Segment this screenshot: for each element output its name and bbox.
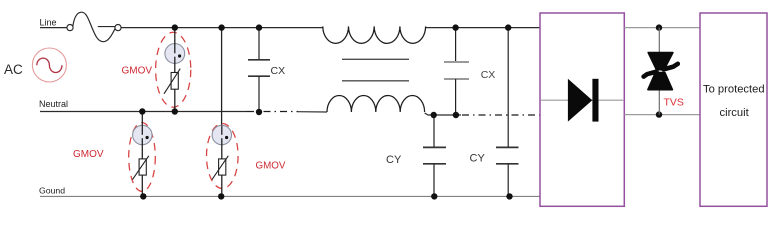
GMOV3 middle lead <box>221 138 223 159</box>
wire: Neutral solid to choke <box>297 111 327 113</box>
choke L1 bottom winding <box>327 96 425 113</box>
svg-text:CY: CY <box>386 154 402 166</box>
choke L1 core line 1 <box>342 58 409 60</box>
wire: Neutral left section <box>40 111 247 113</box>
svg-text:Line: Line <box>40 17 57 27</box>
GMOV1 middle lead <box>174 57 176 73</box>
capacitor CY1 lower lead <box>433 164 435 197</box>
wire: negative rail rectifier to load <box>624 114 700 116</box>
capacitor CX1 lower lead <box>258 76 260 111</box>
capacitor CY1 top plate <box>423 146 446 148</box>
wire: Neutral dash-dot section 1 <box>247 111 298 113</box>
capacitor CY2 lower lead <box>507 164 509 197</box>
GMOV2 upper lead <box>141 112 143 135</box>
junction dot Line-CX2 <box>452 24 458 30</box>
GMOV1 GDT dot electrode <box>178 54 181 57</box>
GMOV1 MOV body rect <box>171 73 178 90</box>
GMOV1 lower lead <box>174 89 176 111</box>
GMOV2 lower lead <box>141 175 143 196</box>
load box <box>700 13 767 206</box>
svg-text:GMOV: GMOV <box>256 160 286 171</box>
junction dot Line-GMOV3 <box>218 24 224 30</box>
AC source V1 circle <box>32 48 66 82</box>
choke L1 core line 2 <box>342 80 409 82</box>
svg-text:Gound: Gound <box>39 185 65 195</box>
GMOV2 GDT dot electrode <box>146 136 149 139</box>
AC source V1 sine <box>37 58 62 72</box>
GMOV3 GDT tube circle <box>212 125 231 144</box>
junction dot Ground-CY2 <box>506 193 512 199</box>
fuse F1 right terminal circle <box>115 25 121 31</box>
GMOV1 MOV diagonal <box>164 69 180 94</box>
junction dot Neutral-CX2 <box>453 112 459 118</box>
GMOV3 rail Line to ground <box>221 28 223 126</box>
capacitor CX1 top plate <box>248 59 270 61</box>
TVS D2 upper triangle <box>648 53 673 70</box>
capacitor CX2 upper lead <box>455 28 457 62</box>
svg-text:TVS: TVS <box>664 96 684 108</box>
GMOV3 MOV body rect <box>219 159 226 175</box>
capacitor CY1 upper lead <box>433 115 435 147</box>
svg-text:CX: CX <box>481 69 496 81</box>
GMOV3 upper lead inside circle <box>221 126 223 135</box>
GMOV3 MOV diagonal <box>212 156 228 180</box>
GMOV1 upper lead <box>174 28 176 54</box>
junction dot Neutral-CY1 <box>431 112 437 118</box>
wire: Line choke to rectifier <box>426 27 540 29</box>
junction dot Ground-GMOV3 <box>218 193 224 199</box>
capacitor CX2 lower lead <box>455 79 457 115</box>
svg-text:CY: CY <box>470 153 486 165</box>
GMOV2 red dashed ellipse <box>129 123 156 192</box>
wire: Ground line <box>40 195 540 197</box>
rectifier diode D1 triangle <box>568 79 592 122</box>
GMOV2 MOV body rect <box>139 159 146 175</box>
junction dot Neutral-GMOV1 <box>172 108 178 114</box>
TVS D2 left waist stub <box>644 72 657 77</box>
capacitor CX1 upper lead <box>258 28 260 60</box>
GMOV1 GDT tube circle <box>165 44 185 64</box>
svg-text:GMOV: GMOV <box>122 65 153 76</box>
GMOV1 red dashed ellipse <box>156 32 191 107</box>
TVS lower lead <box>658 90 660 115</box>
junction dot TVS top <box>656 24 662 30</box>
svg-text:CX: CX <box>271 65 286 77</box>
svg-text:AC: AC <box>4 62 23 77</box>
wire: Neutral right of choke <box>425 113 461 115</box>
fuse F1 left terminal circle <box>67 25 73 31</box>
TVS D2 lower triangle <box>648 73 672 90</box>
svg-text:GMOV: GMOV <box>73 149 104 160</box>
rectifier box U1 <box>540 13 624 206</box>
junction dot Line-CY2 <box>505 24 511 30</box>
rectifier internal lead <box>541 99 623 101</box>
GMOV3 red dashed ellipse <box>207 124 239 189</box>
GMOV2 MOV diagonal <box>133 156 149 180</box>
capacitor CX2 top plate <box>444 61 469 63</box>
svg-text:Neutral: Neutral <box>39 99 68 109</box>
capacitor CY2 bottom plate <box>496 163 519 165</box>
wire: Neutral dash-dot section 2 <box>462 114 540 116</box>
wire: Line input segment <box>40 27 67 29</box>
GMOV3 GDT dot electrode <box>225 136 228 139</box>
wire: positive rail rectifier to load <box>624 27 700 29</box>
junction dot Ground-GMOV2 <box>140 193 146 199</box>
junction dot Neutral-CX1 <box>256 109 262 115</box>
capacitor CY1 bottom plate <box>423 163 446 165</box>
TVS upper lead <box>658 28 660 53</box>
GMOV2 middle lead <box>141 138 143 159</box>
wire: Line fuse to choke <box>121 27 323 29</box>
junction dot Line-GMOV1 <box>172 24 178 30</box>
capacitor CX1 bottom plate <box>248 75 270 77</box>
junction dot TVS bottom <box>656 111 662 117</box>
svg-text:circuit: circuit <box>720 107 750 119</box>
GMOV3 lower lead <box>221 175 223 196</box>
capacitor CY2 rail from Line <box>507 28 509 148</box>
rectifier diode D1 cathode bar <box>592 79 598 122</box>
GMOV2 GDT tube circle <box>133 125 152 144</box>
choke L1 top winding <box>323 26 426 43</box>
fuse F1 sine element <box>73 12 115 42</box>
junction dot Neutral-GMOV2 <box>139 108 145 114</box>
TVS D2 right waist stub <box>664 64 678 70</box>
capacitor CY2 top plate <box>496 146 519 148</box>
capacitor CX2 bottom plate <box>444 78 469 80</box>
svg-text:To protected: To protected <box>703 83 765 95</box>
junction dot Line-CX1 <box>256 24 262 30</box>
fuse F1 link bar <box>98 26 115 28</box>
junction dot Ground-CY1 <box>431 193 437 199</box>
